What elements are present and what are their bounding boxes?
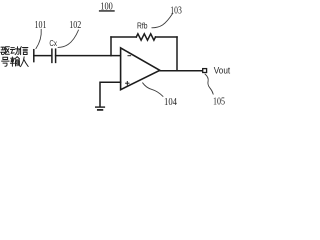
svg-text:102: 102 — [69, 20, 81, 31]
figure title 100 — [100, 2, 114, 13]
svg-text:Vout: Vout — [214, 66, 231, 76]
leader line 103 — [152, 13, 173, 28]
wire feedback right drop to output node — [176, 37, 178, 71]
op-amp 104 triangle body — [121, 48, 160, 90]
svg-text:104: 104 — [164, 97, 178, 108]
value label Rfb — [137, 21, 148, 30]
wire input port to capacitor Cx — [34, 55, 51, 57]
wire capacitor Cx to inverting input of op-amp — [56, 55, 121, 57]
label 105 — [213, 97, 225, 108]
junction node at inverting input / feedback riser wire — [110, 37, 112, 56]
op-amp inverting input pin (-) — [128, 55, 131, 57]
resistor Rfb — [136, 34, 155, 40]
驱 — [1, 47, 5, 55]
leader line 105 — [205, 74, 213, 94]
信 — [20, 47, 21, 55]
op-amp non-inverting input pin (+) — [126, 82, 129, 85]
动 — [10, 48, 14, 54]
svg-text:Cx: Cx — [49, 39, 57, 48]
svg-text:105: 105 — [213, 97, 225, 108]
输 — [10, 57, 14, 66]
leader line 102 — [58, 30, 79, 47]
input port (drive signal input) — [33, 50, 35, 62]
wire op-amp output to Vout port — [160, 70, 204, 72]
号 — [2, 57, 10, 66]
入 — [21, 57, 29, 67]
input net name text: 驱动信 (drive signal, line 1) — [1, 47, 28, 55]
label 103 — [170, 5, 182, 16]
svg-text:101: 101 — [35, 20, 47, 31]
label 104 — [164, 97, 178, 108]
net label Vout — [214, 66, 231, 76]
ground symbol — [96, 107, 105, 110]
input net name text: 号输入 (signal input, line 2) — [2, 57, 29, 67]
capacitor Cx — [52, 49, 56, 62]
value label Cx — [49, 39, 57, 48]
label 102 — [69, 20, 81, 31]
wire feedback top left segment — [111, 36, 136, 38]
wire feedback top right segment — [156, 36, 178, 38]
label 101 — [35, 20, 47, 31]
output port Vout (terminal square) — [203, 69, 207, 73]
leader line 104 — [143, 83, 163, 97]
leader line 101 — [36, 29, 41, 48]
wire non-inverting input to ground — [100, 82, 121, 106]
svg-text:Rfb: Rfb — [137, 21, 148, 30]
